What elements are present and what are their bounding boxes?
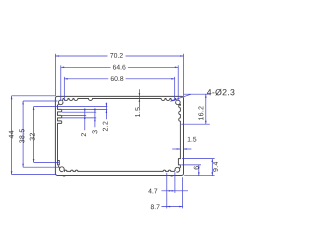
dimension 64.6 extension lines xyxy=(60,65,62,100)
right wall bottom step notch xyxy=(178,159,180,168)
right wall inner line with serrations xyxy=(179,104,181,107)
left wall inner line and PCB slot flanges xyxy=(58,105,62,160)
dimension 44 line xyxy=(11,96,13,175)
dimension 2.2 text xyxy=(103,121,108,131)
leader 4-2.3 line xyxy=(184,93,210,95)
dimension 1.5 top wall text xyxy=(135,107,140,117)
bottom wall inner line xyxy=(67,170,174,172)
dimension 32 text xyxy=(30,133,35,140)
dimension 44 extension lines xyxy=(12,95,56,97)
dimension 60.8 line xyxy=(64,78,108,80)
dimension 9.4 extension lines xyxy=(182,158,215,160)
dimension 2 text xyxy=(81,133,86,136)
dimension 60.8 extension lines xyxy=(63,77,65,101)
dimension 1.5 top wall line xyxy=(138,89,140,107)
slot extension lines left wall xyxy=(62,109,107,111)
bottom wall serration bumps xyxy=(64,170,171,171)
dimension 3 line xyxy=(94,108,96,127)
dimension 70.2 line xyxy=(55,55,107,57)
dimension 4.7 text xyxy=(148,189,157,194)
outer bottom ribs xyxy=(63,175,66,178)
dimension 9.4 line xyxy=(211,159,213,176)
dimension 16.2 line xyxy=(205,94,207,124)
dimension 38.5 extension lines xyxy=(23,100,57,102)
screw boss bottom-right xyxy=(175,167,180,172)
dimension 8.7 extension lines xyxy=(166,173,168,209)
screw boss top-right xyxy=(176,100,181,105)
dimension 6 line xyxy=(198,165,200,176)
dimension 32 line xyxy=(33,107,35,163)
screw boss top-left xyxy=(58,100,63,105)
enclosure outer contour xyxy=(55,96,183,175)
dimension 64.6 line xyxy=(61,66,111,68)
label 4-dia2.3 text xyxy=(207,89,235,96)
screw boss bottom-left xyxy=(59,167,64,172)
dimension 8.7 line xyxy=(161,206,182,208)
dimension 3 text xyxy=(92,130,97,133)
dimension 60.8 text xyxy=(111,76,124,81)
dimension 2 line xyxy=(84,108,86,130)
dimension 38.5 line xyxy=(22,101,24,167)
dimension 32 extension line top xyxy=(34,106,108,108)
dimension 6 text xyxy=(194,166,199,169)
dimension 70.2 extension lines xyxy=(54,54,56,96)
dimension 64.6 text xyxy=(113,65,126,70)
dimension 4.7 extension line xyxy=(174,172,176,193)
dimension 38.5 text xyxy=(19,129,24,143)
dimension 32 extension line bottom xyxy=(34,161,59,163)
dimension 16.2 extension line bottom xyxy=(181,123,210,125)
top wall serration bumps xyxy=(64,99,175,101)
dimension 9.4 text xyxy=(213,162,218,172)
dimension 8.7 text xyxy=(151,204,160,209)
dimension 2.2 line xyxy=(105,103,107,120)
dimension 4.7 line xyxy=(161,190,188,192)
top wall inner line xyxy=(63,98,175,100)
dimension 1.5 right wall text xyxy=(188,137,197,142)
dimension 1.5 right wall line xyxy=(172,148,180,150)
left wall bottom step xyxy=(58,161,60,165)
dimension 44 text xyxy=(9,131,14,139)
dimension 16.2 text xyxy=(198,106,203,120)
dimension 70.2 text xyxy=(110,53,123,58)
dimension 6 extension line xyxy=(181,164,201,166)
